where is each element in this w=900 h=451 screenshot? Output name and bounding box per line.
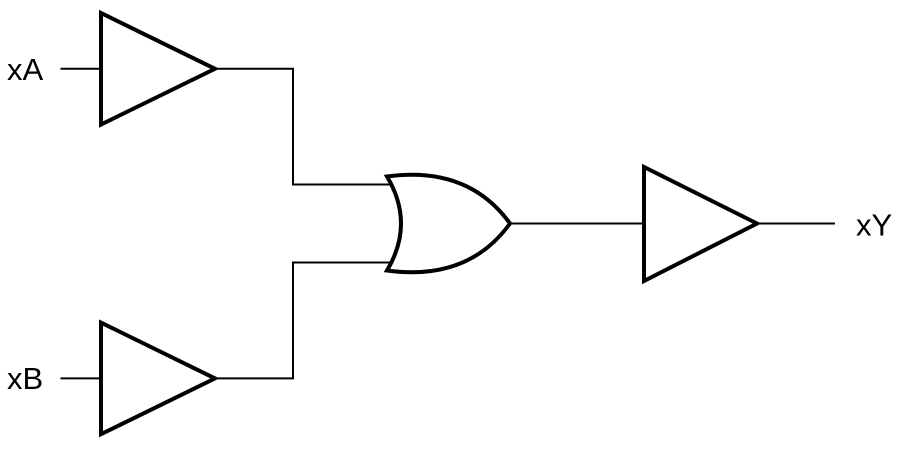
wire buffer A output to OR top input — [215, 69, 393, 185]
svg-text:xA: xA — [7, 52, 44, 87]
wire input A — [61, 68, 102, 70]
or-gate U3 — [387, 175, 510, 273]
buffer U4 (output) — [644, 167, 757, 281]
svg-text:xB: xB — [7, 361, 43, 396]
buffer U2 (xB) — [101, 323, 215, 435]
wire input B — [61, 377, 102, 379]
svg-text:xY: xY — [856, 208, 892, 243]
buffer U1 (xA) — [101, 13, 215, 125]
wire OR output to buffer U4 input — [510, 223, 646, 225]
wire buffer B output to OR bottom input — [215, 263, 393, 379]
wire output Y — [757, 223, 835, 225]
